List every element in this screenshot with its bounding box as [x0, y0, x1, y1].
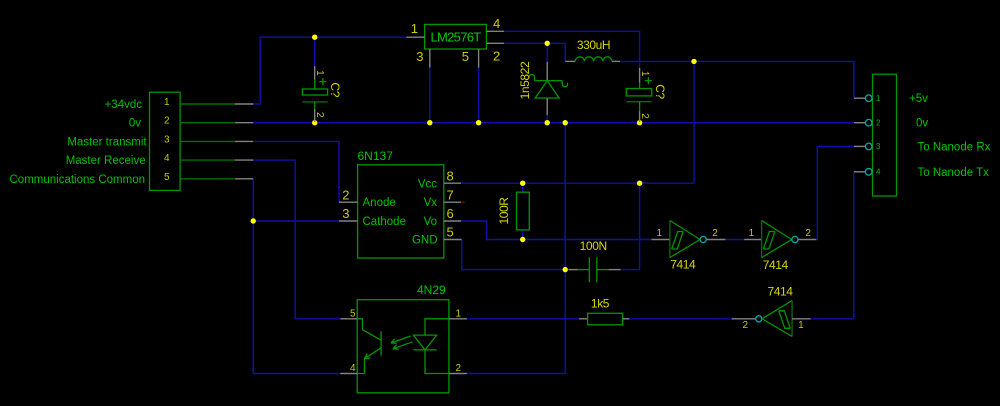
pin 3 cathode	[339, 220, 358, 222]
resistor R1 100R	[497, 192, 529, 230]
wire net to-nanode-rx2	[816, 146, 854, 239]
wire net communications-common	[253, 179, 340, 374]
node bus/LM3	[427, 120, 432, 125]
capacitor C1 (input, polarized)	[302, 66, 342, 122]
node bus/C2	[637, 120, 642, 125]
svg-text:3: 3	[876, 142, 881, 151]
svg-text:7414: 7414	[767, 285, 793, 299]
pin 6 vo	[444, 220, 461, 222]
pin 2	[854, 122, 866, 124]
svg-text:0v: 0v	[916, 118, 928, 130]
svg-text:330uH: 330uH	[577, 38, 610, 52]
optocoupler U2 6N137	[339, 149, 465, 258]
wire net 1k5	[467, 318, 737, 320]
node vo/100R	[520, 237, 525, 242]
phototransistor	[357, 319, 362, 330]
svg-text:+34vdc: +34vdc	[105, 99, 143, 111]
resistor R2 1k5	[579, 296, 629, 325]
svg-text:2: 2	[493, 48, 500, 63]
svg-text:4: 4	[493, 16, 500, 31]
svg-text:5: 5	[462, 49, 469, 64]
svg-text:C?: C?	[328, 82, 342, 97]
regulator U1 LM2576T	[407, 16, 505, 67]
svg-text:100N: 100N	[580, 239, 607, 253]
pin 3	[429, 49, 431, 68]
pin 1	[180, 103, 235, 105]
svg-text:Communications Common: Communications Common	[10, 174, 146, 186]
svg-text:0v: 0v	[129, 118, 141, 130]
svg-text:5: 5	[447, 225, 454, 240]
svg-text:7414: 7414	[670, 258, 696, 272]
svg-text:2: 2	[456, 363, 462, 374]
wire net 0v bus	[253, 122, 854, 124]
svg-text:2: 2	[876, 119, 881, 128]
node +5v/ind	[691, 59, 696, 64]
svg-text:+5v: +5v	[909, 93, 928, 105]
pin 3	[854, 145, 866, 147]
pin 5	[180, 178, 235, 180]
svg-text:7: 7	[447, 187, 454, 202]
wire net +5v	[461, 31, 854, 269]
svg-text:1: 1	[314, 70, 325, 76]
wire net gate1-gate2	[726, 239, 745, 241]
node cc/cathode	[251, 218, 256, 223]
diode D1 1n5822 (schottky)	[518, 61, 568, 115]
node gnd/100N	[563, 267, 568, 272]
svg-text:2: 2	[805, 228, 811, 239]
connector J1 (left)	[150, 92, 254, 190]
pin 2	[180, 122, 235, 124]
svg-text:2: 2	[743, 320, 749, 331]
pin 2	[449, 373, 467, 375]
wire net to-nanode-rx	[811, 172, 854, 319]
pin 7 vx unconnected	[444, 201, 461, 203]
LED	[425, 319, 449, 335]
wire net lm-pin5	[478, 68, 480, 123]
svg-text:Master Receive: Master Receive	[66, 155, 146, 167]
pin 2 anode	[339, 201, 358, 203]
node vcc/100R	[520, 181, 525, 186]
svg-text:1: 1	[749, 228, 755, 239]
svg-text:1k5: 1k5	[591, 296, 610, 310]
node bus/diode	[545, 120, 550, 125]
pin 8 vcc	[444, 182, 461, 184]
pin 5 gnd	[444, 239, 462, 241]
pin 5	[478, 49, 480, 68]
svg-text:2: 2	[712, 228, 718, 239]
pin 2	[486, 42, 504, 44]
wire net gnd	[462, 123, 566, 374]
wire net vo	[461, 221, 652, 240]
node bus/LM5	[476, 120, 481, 125]
inverter U3A 7414	[652, 221, 726, 272]
svg-text:Vo: Vo	[424, 216, 437, 228]
svg-text:Cathode: Cathode	[363, 216, 406, 228]
pin 1	[854, 97, 866, 99]
inductor L1 330uH	[565, 38, 620, 61]
svg-text:6N137: 6N137	[358, 149, 394, 163]
wire net lm-pin3	[429, 68, 431, 123]
svg-text:4: 4	[164, 153, 170, 164]
svg-text:2: 2	[342, 187, 349, 202]
svg-text:7414: 7414	[763, 258, 789, 272]
svg-text:1: 1	[411, 21, 418, 36]
svg-text:2: 2	[164, 116, 170, 127]
pin 4	[340, 373, 357, 375]
svg-text:Anode: Anode	[363, 197, 396, 209]
inverter U3C 7414 (mirrored)	[732, 285, 811, 337]
node sw/diode	[545, 41, 550, 46]
svg-text:2: 2	[314, 112, 325, 118]
wire net cap1-top	[314, 37, 316, 66]
svg-text:4: 4	[876, 168, 881, 177]
node bus/C1	[312, 120, 317, 125]
svg-text:3: 3	[416, 49, 423, 64]
optocoupler U4 4N29	[340, 283, 467, 393]
connector J2 (right)	[854, 74, 897, 196]
pin 4	[486, 30, 504, 32]
svg-text:1: 1	[456, 309, 462, 320]
svg-text:4: 4	[350, 363, 356, 374]
inverter U3B 7414	[744, 221, 816, 273]
svg-text:1: 1	[164, 97, 170, 108]
svg-text:100R: 100R	[497, 197, 511, 225]
wire net diode-bottom	[546, 115, 548, 123]
capacitor C3 100N	[569, 239, 621, 282]
node +34vdc/C1	[312, 35, 317, 40]
pin 3	[180, 140, 235, 142]
svg-text:Master transmit: Master transmit	[67, 136, 147, 148]
wire net switch-node	[504, 43, 565, 62]
svg-text:6: 6	[447, 206, 454, 221]
svg-text:3: 3	[164, 134, 170, 145]
svg-text:2: 2	[639, 113, 650, 119]
svg-text:8: 8	[447, 169, 454, 184]
pin 1	[449, 318, 467, 320]
svg-text:GND: GND	[412, 235, 438, 247]
svg-text:To Nanode Rx: To Nanode Rx	[918, 141, 991, 153]
svg-text:1: 1	[876, 94, 881, 103]
svg-text:3: 3	[342, 206, 349, 221]
svg-text:Vcc: Vcc	[418, 178, 437, 190]
svg-text:5: 5	[164, 172, 170, 183]
svg-text:1: 1	[798, 320, 804, 331]
svg-text:1: 1	[639, 71, 650, 77]
node vcc/C2branch	[637, 181, 642, 186]
pin 5	[340, 318, 357, 320]
svg-text:1n5822: 1n5822	[518, 61, 532, 99]
wire net +34vdc	[253, 37, 406, 104]
wire net master-transmit	[253, 141, 339, 202]
svg-text:1: 1	[656, 228, 662, 239]
pin 4	[854, 171, 866, 173]
light arrows	[391, 336, 411, 343]
svg-text:Vx: Vx	[424, 197, 438, 209]
pin 1	[407, 36, 425, 38]
svg-text:5: 5	[350, 309, 356, 320]
node bus/gnd	[563, 120, 568, 125]
pin 4	[180, 159, 235, 161]
wire net master-receive	[253, 160, 340, 319]
svg-text:LM2576T: LM2576T	[430, 30, 481, 45]
svg-text:4N29: 4N29	[417, 283, 446, 297]
capacitor C2 (output, polarized)	[626, 68, 667, 122]
svg-text:To Nanode Tx: To Nanode Tx	[918, 167, 990, 179]
svg-text:C?: C?	[653, 84, 667, 99]
